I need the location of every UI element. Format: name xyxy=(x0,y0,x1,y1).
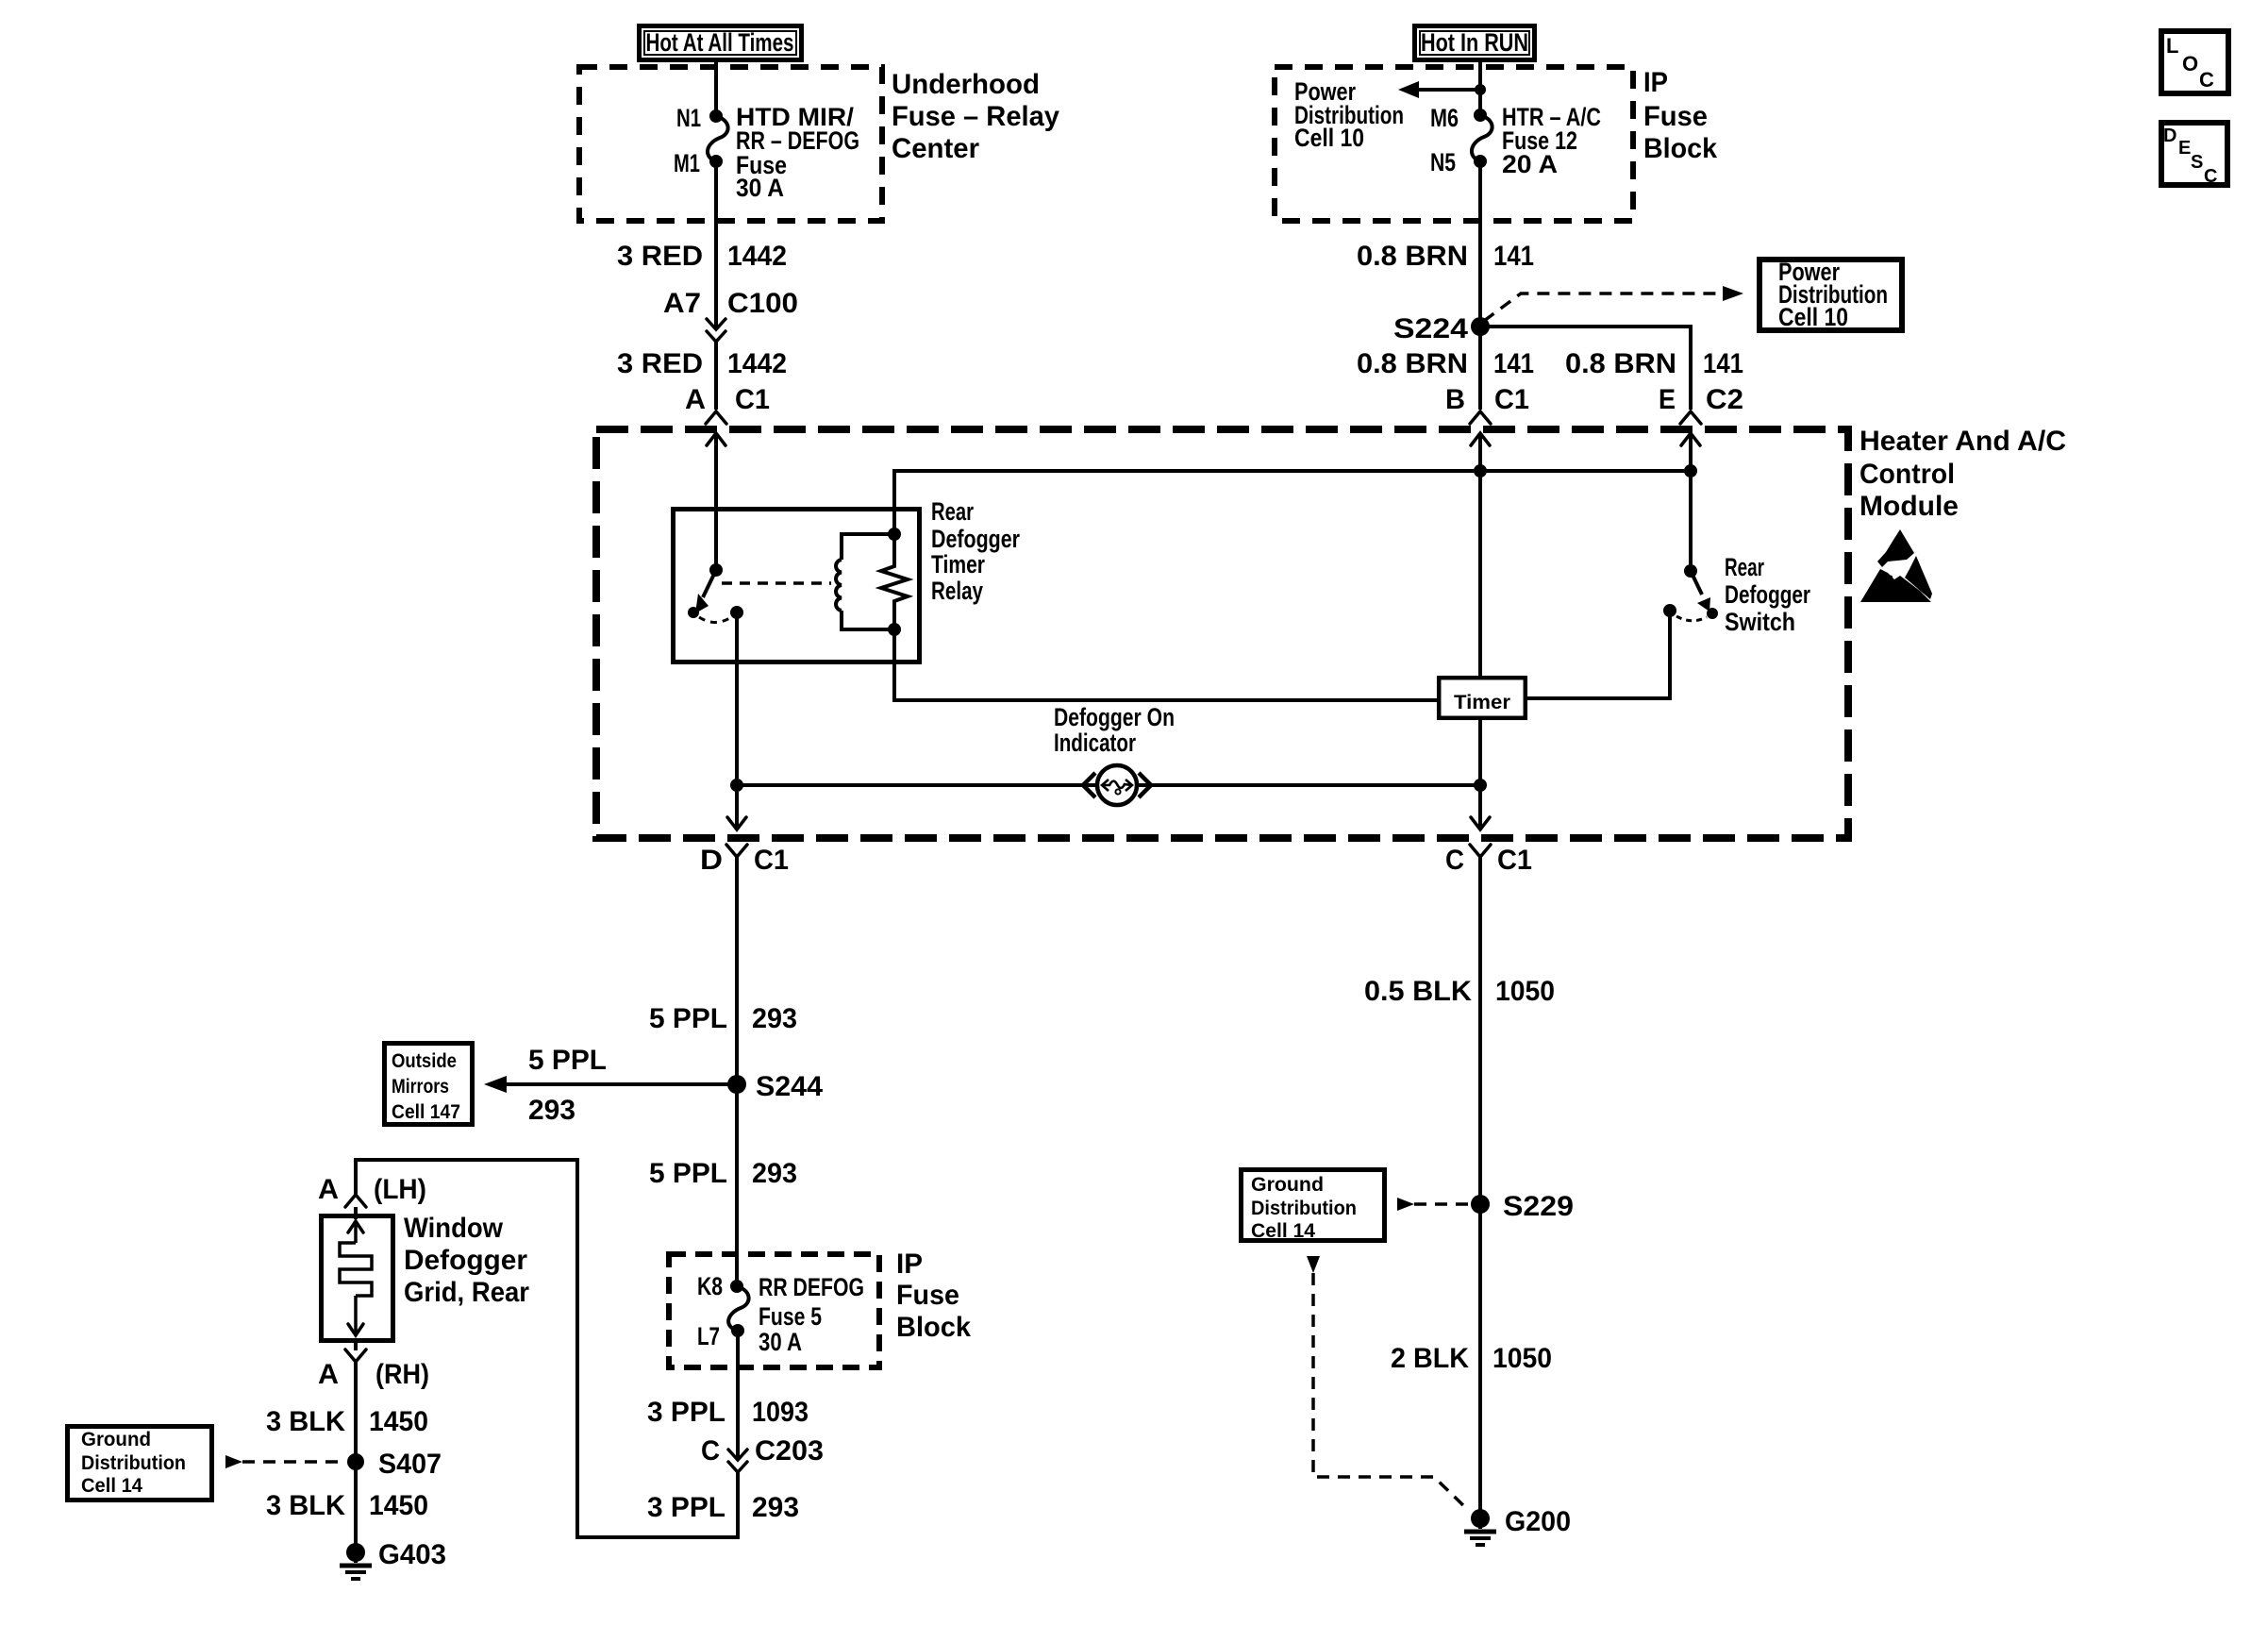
label 0.8 BRN 141 (pin E) xyxy=(1565,348,1743,379)
label 0.5 BLK 1050 xyxy=(1364,976,1555,1007)
label pin C connector C203 xyxy=(701,1435,824,1467)
label 3 PPL 293 xyxy=(647,1492,799,1523)
svg-text:0.5 BLK: 0.5 BLK xyxy=(1364,976,1472,1007)
svg-text:B: B xyxy=(1445,384,1465,415)
svg-text:C: C xyxy=(701,1435,720,1467)
svg-text:E: E xyxy=(2178,138,2191,159)
label Defogger On Indicator xyxy=(1054,703,1175,757)
svg-text:S224: S224 xyxy=(1393,313,1468,344)
svg-text:S244: S244 xyxy=(756,1071,823,1102)
svg-text:Fuse – Relay: Fuse – Relay xyxy=(892,101,1059,132)
svg-text:N1: N1 xyxy=(676,104,701,132)
connector C203 in-line xyxy=(728,1450,747,1472)
ground G403 xyxy=(340,1539,446,1579)
label 5 PPL 293 xyxy=(649,1158,797,1189)
svg-text:Hot In RUN: Hot In RUN xyxy=(1421,28,1528,57)
svg-text:A: A xyxy=(318,1174,339,1205)
wire module pin B entry arrow down (through timer) xyxy=(1471,433,1490,829)
relay switch blade with arrow xyxy=(695,570,716,613)
label 0.8 BRN 141 (pin B) xyxy=(1357,348,1534,379)
connector chevron at grid pin A RH xyxy=(345,1349,366,1362)
label pin C connector C1 xyxy=(1445,845,1532,876)
lamp Defogger On Indicator xyxy=(1083,765,1151,805)
dashed reference path box to G200 xyxy=(1307,1256,1468,1510)
exit arrow module pin D xyxy=(727,817,746,830)
svg-text:L: L xyxy=(2166,34,2178,58)
label pin A (RH) xyxy=(318,1359,429,1390)
svg-text:Heater And A/C: Heater And A/C xyxy=(1859,426,2066,457)
svg-text:3 PPL: 3 PPL xyxy=(647,1492,725,1523)
dashed reference arrow to S407 xyxy=(225,1455,344,1468)
wire fuse M1 down to connector C100 xyxy=(714,161,718,327)
svg-text:D: D xyxy=(2163,126,2176,146)
node LOC tab xyxy=(2161,31,2228,93)
splice S244 xyxy=(727,1071,823,1102)
svg-text:Defogger: Defogger xyxy=(1725,580,1810,609)
svg-text:Defogger On: Defogger On xyxy=(1054,703,1175,731)
svg-text:Block: Block xyxy=(1643,133,1717,164)
svg-text:C: C xyxy=(2199,68,2214,92)
svg-text:Distribution: Distribution xyxy=(81,1452,186,1474)
label IP Fuse Block xyxy=(896,1249,971,1343)
svg-text:1442: 1442 xyxy=(727,241,787,272)
svg-text:141: 141 xyxy=(1703,348,1743,379)
IP Fuse Block dashed box xyxy=(1275,67,1633,221)
wire module pin E entry arrow down to defogger switch xyxy=(1681,433,1700,571)
label 3 PPL 1093 xyxy=(647,1397,809,1428)
svg-text:G403: G403 xyxy=(378,1539,446,1570)
wire into grid box xyxy=(354,1207,358,1219)
svg-text:Rear: Rear xyxy=(1725,553,1764,581)
svg-text:141: 141 xyxy=(1493,348,1534,379)
svg-text:3 PPL: 3 PPL xyxy=(647,1397,725,1428)
svg-text:293: 293 xyxy=(752,1492,799,1523)
svg-text:N5: N5 xyxy=(1430,148,1456,176)
svg-text:K8: K8 xyxy=(697,1272,723,1300)
svg-text:0.8 BRN: 0.8 BRN xyxy=(1357,241,1468,272)
exit arrow module pin C xyxy=(1471,817,1490,830)
wire relay output down to module pin D xyxy=(735,612,739,829)
node DESC tab xyxy=(2161,123,2227,187)
svg-text:Defogger: Defogger xyxy=(931,525,1020,553)
svg-text:Fuse 5: Fuse 5 xyxy=(759,1302,822,1331)
wire grid RH down to ground G403 xyxy=(354,1362,358,1552)
svg-text:G200: G200 xyxy=(1505,1506,1571,1537)
wire S244 branch to Outside Mirrors with arrow xyxy=(484,1076,737,1093)
node Hot At All Times box xyxy=(640,26,802,60)
label pin D connector C1 xyxy=(700,845,789,876)
svg-text:Defogger: Defogger xyxy=(404,1245,527,1276)
svg-text:(LH): (LH) xyxy=(374,1174,426,1205)
label 3 BLK 1450 xyxy=(266,1406,428,1437)
fuse value label xyxy=(759,1273,864,1356)
svg-text:2 BLK: 2 BLK xyxy=(1391,1343,1469,1374)
connector chevron at module pin E xyxy=(1680,411,1701,424)
svg-text:Outside: Outside xyxy=(392,1050,457,1072)
splice S407 xyxy=(347,1449,442,1480)
svg-text:Ground: Ground xyxy=(1251,1174,1324,1196)
svg-text:Switch: Switch xyxy=(1725,608,1795,636)
splice S229 xyxy=(1471,1191,1574,1222)
wire defogger on indicator rail xyxy=(737,783,1480,787)
svg-text:C: C xyxy=(2204,166,2217,187)
label A7 C100 xyxy=(663,288,798,319)
svg-text:C1: C1 xyxy=(1497,845,1532,876)
svg-text:5 PPL: 5 PPL xyxy=(649,1158,727,1189)
svg-text:C1: C1 xyxy=(1494,384,1529,415)
wire C203 routed left and up to grid LH xyxy=(356,1160,738,1537)
ESD sensitive symbol xyxy=(1860,529,1932,602)
svg-text:Fuse: Fuse xyxy=(1643,101,1708,132)
svg-text:Mirrors: Mirrors xyxy=(392,1076,449,1098)
wire fuse L7 down to connector C203 xyxy=(736,1331,740,1459)
label 0.8 BRN 141 xyxy=(1357,241,1534,272)
connector chevron below module pin D xyxy=(726,845,747,857)
Heater And A/C Control Module dashed box xyxy=(596,429,1848,838)
svg-text:C: C xyxy=(1445,845,1464,876)
svg-text:M6: M6 xyxy=(1430,104,1459,132)
svg-text:S407: S407 xyxy=(378,1449,442,1480)
Underhood Fuse-Relay Center dashed box xyxy=(579,67,882,221)
svg-text:Center: Center xyxy=(892,133,979,164)
svg-text:A: A xyxy=(318,1359,339,1390)
node Ground Distribution Cell 14 reference box xyxy=(68,1427,212,1500)
label Window Defogger Grid, Rear xyxy=(404,1213,529,1308)
relay resistor R1 xyxy=(881,534,908,629)
connector chevron at module pin B xyxy=(1470,411,1491,424)
timer box xyxy=(1439,678,1526,718)
svg-text:S: S xyxy=(2191,152,2203,173)
node Outside Mirrors Cell 147 reference box xyxy=(385,1044,473,1125)
wire to Power Distribution with arrow xyxy=(1398,81,1486,98)
wire module pin A entry arrow down to relay common xyxy=(707,433,725,570)
svg-text:IP: IP xyxy=(1643,67,1668,98)
svg-text:(RH): (RH) xyxy=(375,1359,429,1390)
svg-text:30 A: 30 A xyxy=(759,1328,802,1356)
svg-text:Cell 14: Cell 14 xyxy=(81,1475,142,1497)
svg-text:293: 293 xyxy=(752,1003,797,1034)
svg-text:E: E xyxy=(1659,384,1676,415)
fuse HTD MIR/RR-DEFOG 30A (N1/M1) xyxy=(708,109,728,168)
wire pin D down to IP fuse block K8 xyxy=(735,857,739,1286)
wire fuse N5 down to splice S224 and module pin B xyxy=(1478,161,1482,410)
svg-text:Fuse: Fuse xyxy=(896,1280,959,1311)
svg-text:Timer: Timer xyxy=(1454,692,1510,713)
node indicator junction right xyxy=(1474,779,1487,792)
svg-text:Cell 147: Cell 147 xyxy=(392,1101,460,1123)
relay switch contact (open) xyxy=(688,607,699,618)
label Rear Defogger Switch xyxy=(1725,553,1810,636)
label Underhood Fuse-Relay Center xyxy=(892,69,1059,164)
svg-text:Underhood: Underhood xyxy=(892,69,1040,100)
svg-text:Rear: Rear xyxy=(931,497,974,526)
wire from Hot In RUN to fuse M6 xyxy=(1478,62,1482,115)
svg-text:30 A: 30 A xyxy=(736,174,784,202)
wire grid box to RH chevron xyxy=(354,1341,358,1350)
svg-text:Cell 14: Cell 14 xyxy=(1251,1220,1315,1242)
grid element internals xyxy=(340,1221,372,1335)
svg-text:3 BLK: 3 BLK xyxy=(266,1490,345,1521)
svg-text:Window: Window xyxy=(404,1213,504,1244)
label IP Fuse Block xyxy=(1643,67,1717,164)
wire from Hot At All Times to fuse N1 xyxy=(714,62,718,116)
svg-text:1450: 1450 xyxy=(369,1406,428,1437)
svg-text:0.8 BRN: 0.8 BRN xyxy=(1357,348,1468,379)
relay switch pivot xyxy=(709,563,723,577)
svg-text:Indicator: Indicator xyxy=(1054,729,1136,757)
node Ground Distribution Cell 14 reference box xyxy=(1242,1170,1385,1243)
fuse value label xyxy=(1502,103,1601,178)
label 5 PPL 293 xyxy=(649,1003,797,1034)
relay coil L1 xyxy=(836,534,894,629)
svg-text:1050: 1050 xyxy=(1495,976,1555,1007)
svg-text:RR DEFOG: RR DEFOG xyxy=(759,1273,864,1301)
wire relay coil bottom down and right to Timer xyxy=(894,629,1437,700)
svg-text:3 RED: 3 RED xyxy=(617,241,703,272)
svg-text:Timer: Timer xyxy=(931,550,985,578)
svg-text:1442: 1442 xyxy=(727,348,787,379)
svg-text:Ground: Ground xyxy=(81,1429,151,1450)
connector chevron at grid pin A LH xyxy=(345,1195,366,1207)
fuse HTR-A/C Fuse 12 20A (M6/N5) xyxy=(1472,109,1493,168)
wire inner top rail from relay coil to pin E wire xyxy=(894,464,1697,534)
svg-text:Hot At All Times: Hot At All Times xyxy=(646,28,794,57)
svg-text:Control: Control xyxy=(1859,459,1955,490)
svg-text:M1: M1 xyxy=(674,149,700,177)
svg-text:C2: C2 xyxy=(1706,384,1743,415)
svg-text:1450: 1450 xyxy=(369,1490,428,1521)
svg-text:3 RED: 3 RED xyxy=(617,348,703,379)
svg-text:IP: IP xyxy=(896,1249,923,1280)
label 3 BLK 1450 xyxy=(266,1490,428,1521)
wire branch S224 to module pin E xyxy=(1480,327,1691,410)
svg-text:A7: A7 xyxy=(663,288,701,319)
dashed reference line S224 to Power Distribution Cell 10 xyxy=(1484,286,1743,321)
svg-text:C1: C1 xyxy=(735,384,770,415)
svg-text:Cell 10: Cell 10 xyxy=(1294,124,1364,152)
svg-text:1093: 1093 xyxy=(752,1397,809,1428)
node Power Distribution Cell 10 reference box xyxy=(1759,258,1902,331)
connector C100 in-line xyxy=(707,319,725,342)
wire timer to defogger switch xyxy=(1527,611,1670,698)
svg-text:1050: 1050 xyxy=(1493,1343,1552,1374)
svg-text:5 PPL: 5 PPL xyxy=(528,1045,607,1076)
wire pin C down to ground G200 xyxy=(1478,857,1482,1518)
heater element: Window Defogger Grid, Rear box xyxy=(322,1216,393,1341)
svg-text:0.8 BRN: 0.8 BRN xyxy=(1565,348,1676,379)
relay switch contact (to pin D) xyxy=(730,606,743,619)
label 2 BLK 1050 xyxy=(1391,1343,1552,1374)
svg-text:L7: L7 xyxy=(697,1322,720,1350)
relay switch travel dashed arc xyxy=(699,617,731,623)
node coil top xyxy=(888,528,901,541)
connector chevron at module pin A xyxy=(706,411,726,424)
svg-text:Cell 10: Cell 10 xyxy=(1778,303,1848,331)
svg-text:141: 141 xyxy=(1493,241,1534,272)
svg-text:S229: S229 xyxy=(1503,1191,1574,1222)
label pin E connector C2 xyxy=(1659,384,1743,415)
IP Fuse Block dashed box (lower) xyxy=(669,1254,879,1367)
connector chevron below module pin C xyxy=(1470,845,1491,857)
switch SW1: Rear Defogger Switch xyxy=(1663,564,1718,621)
svg-text:Module: Module xyxy=(1859,491,1959,522)
node coil bottom xyxy=(888,623,901,636)
svg-text:20 A: 20 A xyxy=(1502,150,1558,178)
label Heater And A/C Control Module xyxy=(1859,426,2066,522)
label pin A (LH) xyxy=(318,1174,426,1205)
wire C100 to module pin A xyxy=(714,342,718,410)
svg-text:Distribution: Distribution xyxy=(1251,1198,1357,1219)
svg-text:3 BLK: 3 BLK xyxy=(266,1406,345,1437)
node Hot In RUN box xyxy=(1415,26,1535,60)
ground G200 xyxy=(1464,1506,1571,1545)
label Rear Defogger Timer Relay xyxy=(931,497,1020,605)
relay U1: Rear Defogger Timer Relay box xyxy=(674,510,920,662)
svg-text:A: A xyxy=(685,384,706,415)
svg-text:5 PPL: 5 PPL xyxy=(649,1003,727,1034)
label pin A connector C1 xyxy=(685,384,770,415)
svg-text:C203: C203 xyxy=(755,1435,824,1467)
fuse value label xyxy=(736,103,859,202)
svg-text:293: 293 xyxy=(528,1095,575,1126)
svg-text:Relay: Relay xyxy=(931,577,983,605)
relay mechanical linkage dashed xyxy=(722,581,831,585)
svg-text:293: 293 xyxy=(752,1158,797,1189)
svg-text:Block: Block xyxy=(896,1312,971,1343)
label pin B connector C1 xyxy=(1445,384,1529,415)
dashed reference arrow to S229 xyxy=(1397,1198,1469,1211)
fuse RR DEFOG Fuse 5 30A (K8/L7) xyxy=(728,1280,748,1337)
splice S224 xyxy=(1393,313,1490,344)
svg-text:O: O xyxy=(2182,52,2198,75)
svg-text:C1: C1 xyxy=(754,845,789,876)
svg-text:D: D xyxy=(700,845,723,876)
label 3 RED 1442 xyxy=(617,348,787,379)
svg-text:Grid, Rear: Grid, Rear xyxy=(404,1277,529,1308)
svg-text:C100: C100 xyxy=(727,288,798,319)
node indicator junction left xyxy=(730,779,743,792)
label Power Distribution Cell 10 (in IP fuse block) xyxy=(1294,77,1404,152)
label 3 RED 1442 xyxy=(617,241,787,272)
